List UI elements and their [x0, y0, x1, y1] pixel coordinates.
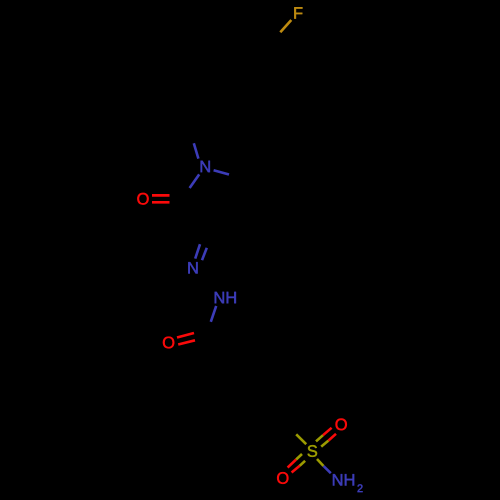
double bond O2=C6 line a	[177, 333, 194, 338]
nitrogen N4 (sulfonamide NH2) label	[333, 474, 354, 485]
bond S1-C(aryl) half-bond	[296, 434, 306, 444]
bond N1-C2(ring) half-bond	[190, 174, 200, 188]
nitrogen N1 (ring) label	[201, 161, 210, 172]
nitrogen N3 (amide NH) label	[215, 292, 236, 303]
bond F1-C(aryl) half-bond	[280, 20, 291, 32]
oxygen O4 (sulfonyl lower) label	[277, 472, 288, 484]
oxygen O3 (sulfonyl upper) label	[336, 419, 347, 431]
double bond S1=O3 line a sulfur half	[316, 435, 323, 441]
oxygen O2 (amide) label	[163, 337, 174, 349]
nitrogen N4 subscript 2	[358, 484, 363, 492]
double bond S1=O3 line b oxygen half	[328, 434, 336, 441]
fluorine F1 label	[294, 7, 302, 18]
bond N1-CH2(benzyl) half-bond	[194, 143, 199, 158]
bond S1-N4 sulfur half	[317, 459, 324, 466]
double bond S1=O4 line b oxygen half	[292, 466, 300, 473]
double bond S1=O3 line a oxygen half	[323, 428, 332, 435]
oxygen O1 (lactam) label	[137, 193, 148, 205]
bond S1-N4 nitrogen half	[324, 466, 331, 473]
nitrogen N2 (hydrazone) label	[188, 262, 197, 273]
double bond S1=O4 line b sulfur half	[300, 461, 305, 466]
bond N1-C5(ring) half-bond	[214, 170, 229, 174]
double bond S1=O4 line a oxygen half	[288, 460, 297, 468]
double bond S1=O4 line a sulfur half	[296, 454, 302, 460]
sulfur S1 label	[308, 445, 318, 457]
double bond S1=O3 line b sulfur half	[321, 441, 328, 447]
double bond C3=N2 line b	[202, 248, 207, 260]
double bond O1=C2 line a	[152, 194, 170, 197]
bond N3-C6(carbonyl) half-bond	[211, 306, 216, 322]
double bond C3=N2 line a	[195, 244, 200, 258]
double bond O2=C6 line b	[178, 340, 195, 344]
double bond O1=C2 line b	[152, 201, 170, 204]
